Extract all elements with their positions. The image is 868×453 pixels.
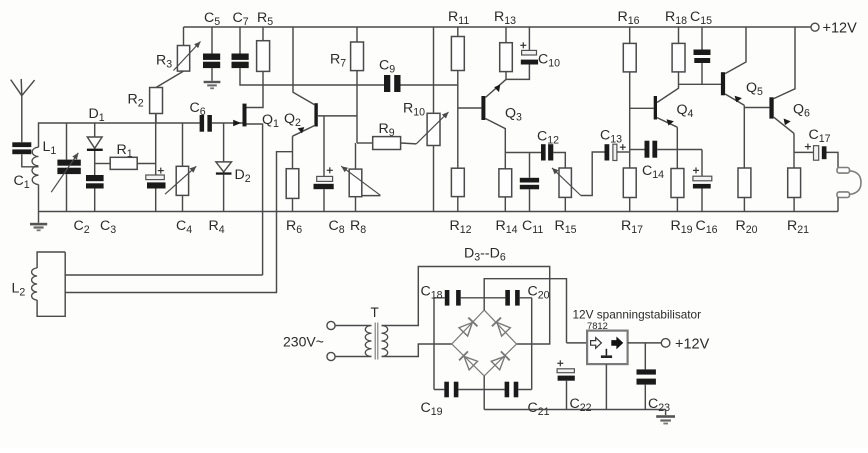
wire D2 top lead: [223, 123, 225, 162]
wire Q6 emitter with arrow: [774, 117, 794, 133]
diode D5 (bridge bottom-left): [459, 351, 478, 370]
transistor Q4 bar: [654, 96, 657, 120]
wire regulator input: [567, 342, 588, 344]
wire Q1 drain: [247, 85, 264, 108]
resistor R4 (variable): [182, 123, 184, 166]
ground main left: [38, 212, 40, 223]
wire regulator output: [628, 342, 662, 344]
wire regulator ground pin: [605, 364, 607, 409]
capacitor C4 (electrolytic): [155, 114, 157, 176]
capacitor C7: [239, 27, 241, 54]
capacitor C16 (electrolytic): [701, 150, 703, 177]
transistor Q2 bar: [314, 103, 317, 126]
wire D1 top lead: [94, 123, 96, 137]
wire Q4 collector: [657, 84, 679, 102]
capacitor C3: [86, 175, 104, 181]
capacitor C17 (electrolytic): [805, 146, 811, 148]
wire Q5 emitter with arrow: [725, 94, 744, 105]
wire +12V top supply rail: [184, 26, 812, 28]
wire C1 bottom to L1 tap: [22, 154, 39, 167]
resistor R20: [743, 108, 745, 169]
resistor R21: [788, 168, 801, 198]
svg-text:+12V: +12V: [675, 336, 710, 352]
wire R11 to R12 vertical: [457, 71, 459, 169]
resistor R19: [671, 169, 684, 198]
resistor R16: [629, 27, 631, 43]
svg-text:T: T: [371, 305, 379, 320]
wire mains to transformer: [335, 325, 371, 327]
regulator ground symbol: [605, 349, 607, 356]
wire Q5 collector: [725, 27, 746, 74]
wire R1 right lead: [137, 163, 156, 165]
resistor R18: [678, 27, 680, 43]
wire C17 left lead: [794, 151, 814, 153]
wire Q2 base lead: [318, 115, 357, 117]
wire C13 to base divider: [617, 151, 630, 153]
capacitor C13 (electrolytic): [605, 144, 610, 160]
capacitor C14: [630, 149, 645, 151]
capacitor C23: [644, 343, 646, 370]
wire bridge minus output: [483, 376, 485, 410]
capacitor C22 (electrolytic): [557, 362, 563, 364]
wire R9 right lead: [401, 142, 417, 145]
terminal +12V PSU output: [661, 339, 670, 348]
transistor Q5 bar: [721, 72, 725, 95]
wire Q3 emitter node: [505, 152, 541, 154]
resistor R17: [623, 168, 636, 198]
capacitor C5: [211, 27, 213, 54]
wire Q4 base lead: [630, 107, 654, 109]
transformer T secondary: [382, 326, 388, 357]
antenna: [11, 79, 35, 142]
diode D4 (bridge top-right): [492, 318, 511, 337]
wire R2 bottom lead: [155, 114, 157, 124]
resistor R14: [504, 153, 506, 169]
wire secondary top to bridge AC right: [382, 267, 550, 345]
terminal +12V top right: [811, 23, 819, 31]
wire secondary bottom to bridge AC left: [382, 344, 452, 357]
resistor R2: [150, 88, 163, 114]
transistor Q3 bar: [481, 96, 485, 120]
capacitor C2 (variable): [66, 123, 68, 160]
wire Q3 emitter: [485, 119, 505, 153]
capacitor C10 (electrolytic): [528, 27, 530, 50]
wire bottom ground rail: [39, 211, 839, 213]
resistor R7: [356, 27, 358, 42]
resistor R10 (variable): [433, 27, 435, 113]
resistor R12: [451, 168, 464, 196]
wire bridge diamond: [452, 310, 517, 376]
resistor R3 (variable): [183, 27, 185, 46]
capacitor C15: [701, 27, 703, 50]
diode D6 (bridge bottom-right): [491, 351, 510, 370]
inductor L2: [37, 252, 65, 268]
wire C17 to speaker: [827, 152, 839, 167]
capacitor C21: [505, 382, 510, 398]
wire Q4 emitter with arrow: [657, 118, 677, 128]
wire Q6 collector: [774, 27, 795, 99]
resistor R8 (variable): [355, 143, 357, 169]
wire R7 bottom lead: [356, 71, 358, 143]
wire Q3 base lead: [458, 107, 482, 109]
wire R1 left lead: [95, 163, 111, 165]
capacitor C18: [445, 290, 450, 306]
transistor Q6 bar: [769, 97, 773, 118]
ground PSU: [665, 410, 667, 416]
capacitor C11: [529, 153, 531, 178]
wire DC minus line: [484, 409, 665, 411]
resistor R15 (variable): [559, 168, 571, 197]
wire tuned node top: [39, 123, 200, 147]
capacitor C9: [384, 75, 390, 92]
resistor R1: [110, 157, 137, 169]
resistor R6: [286, 169, 299, 199]
regulator U1 7812 box: [587, 331, 628, 365]
wire Q2 collector: [293, 27, 314, 105]
diode D3 (bridge top-left): [459, 318, 478, 337]
wire Q6 base lead: [744, 107, 769, 109]
diode D1: [87, 137, 102, 148]
wire R3 to R2 diagonal: [156, 71, 184, 87]
wire R16 to R17 vertical: [629, 72, 631, 168]
wire Q5 base node: [679, 83, 722, 85]
capacitor C19: [444, 382, 449, 398]
capacitor C1: [12, 142, 31, 147]
wire C12 to R15 top: [553, 153, 565, 169]
resistor R5: [262, 27, 264, 41]
ground below C5: [204, 81, 221, 83]
wire R15 wiper to C13: [581, 152, 605, 196]
terminal 230V lower: [327, 352, 335, 360]
regulator output arrow (solid): [612, 338, 623, 349]
speaker LS1: [837, 168, 850, 174]
wire speaker to ground rail: [837, 198, 839, 212]
regulator input arrow (hollow): [591, 338, 602, 349]
svg-text:D3--D6: D3--D6: [464, 246, 506, 264]
capacitor C6: [200, 115, 205, 132]
wire L2 bottom to Q2 emitter node: [65, 152, 292, 293]
resistor R9: [373, 137, 401, 150]
resistor R11: [457, 27, 459, 37]
wire node A horizontal: [263, 84, 384, 86]
wire bridge plus output: [484, 279, 566, 343]
transformer T primary: [365, 326, 371, 357]
resistor R13: [505, 27, 507, 43]
wire bridge cap square: [434, 298, 532, 390]
wire Q3 collector with arrow: [485, 79, 506, 97]
wire L2 top to Q1 source: [65, 274, 262, 276]
wire Q2 emitter with arrow: [293, 126, 315, 137]
wire C14 to emitter and C16: [657, 149, 702, 151]
capacitor C8 (electrolytic): [323, 116, 325, 176]
wire C6 to Q1 gate with arrow: [212, 122, 243, 124]
wire R9 left lead: [357, 142, 373, 144]
inductor L1: [32, 147, 39, 184]
terminal 230V upper: [327, 321, 335, 329]
wire C7 bottom jog: [240, 68, 263, 85]
capacitor C12: [541, 144, 546, 160]
capacitor C20: [505, 290, 510, 306]
wire Q1 source: [247, 124, 263, 275]
diode D2: [216, 162, 232, 172]
svg-text:230V~: 230V~: [283, 334, 324, 350]
transformer T core: [374, 323, 376, 360]
transistor Q1 (FET) bar: [243, 104, 247, 127]
svg-text:+12V: +12V: [823, 21, 858, 37]
svg-text:7812: 7812: [587, 320, 608, 331]
